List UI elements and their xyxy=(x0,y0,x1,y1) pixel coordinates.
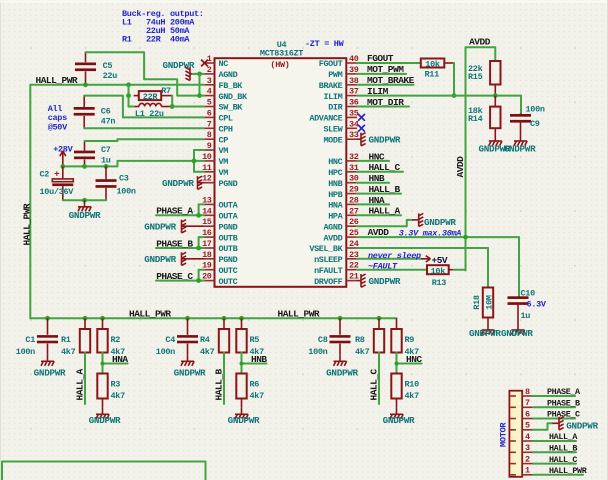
power +28V xyxy=(53,145,73,167)
wire PHASE_C bracket pins 19/20 xyxy=(156,270,204,281)
wire HALL_B from R4 xyxy=(223,353,225,405)
label HNB xyxy=(251,354,267,365)
label HALL_C xyxy=(369,162,401,173)
wire pin22 nFAULT xyxy=(357,269,427,271)
svg-text:GNDPWR: GNDPWR xyxy=(144,254,176,265)
svg-text:HALL_PWR: HALL_PWR xyxy=(549,466,588,476)
svg-text:HALL_PWR: HALL_PWR xyxy=(36,75,78,86)
label motor HALL_PWR xyxy=(549,466,588,476)
label MOT_PWM xyxy=(367,64,404,75)
IC U4 right pins 40-21 with numbers and names xyxy=(309,54,358,287)
label MOTOR vertical xyxy=(498,422,508,447)
label motor HALL_B xyxy=(549,444,577,454)
svg-text:C4: C4 xyxy=(165,335,175,345)
svg-text:4k7: 4k7 xyxy=(200,347,215,357)
svg-text:HALL_B: HALL_B xyxy=(213,368,224,400)
label MOT_DIR xyxy=(367,97,404,108)
svg-text:4k7: 4k7 xyxy=(111,391,126,401)
svg-text:AVDD: AVDD xyxy=(469,37,491,48)
power GNDPWR at motor pin 5 xyxy=(553,417,599,432)
blue note buck-reg output xyxy=(122,9,204,45)
blue note 3.3V max.30mA xyxy=(399,228,462,238)
wire motor PHASE_B xyxy=(533,406,575,408)
svg-text:ADVANCE: ADVANCE xyxy=(309,114,342,124)
connector MOTOR pin 4 xyxy=(510,432,533,442)
resistor R9 xyxy=(391,318,419,357)
svg-text:4: 4 xyxy=(525,432,530,442)
svg-text:R6: R6 xyxy=(250,379,260,389)
svg-text:GNDPWR: GNDPWR xyxy=(369,135,401,146)
svg-text:MOT_PWM: MOT_PWM xyxy=(367,64,404,75)
wire MOT_PWM pin39 xyxy=(357,73,406,75)
svg-text:3.3V max.30mA: 3.3V max.30mA xyxy=(399,228,462,238)
svg-text:SLEW: SLEW xyxy=(323,125,343,135)
svg-text:MCT8316ZT: MCT8316ZT xyxy=(260,49,303,59)
label HNB xyxy=(369,173,385,184)
svg-text:8: 8 xyxy=(525,387,530,397)
power GNDPWR at pin 26 xyxy=(412,213,456,228)
junction C5 at HALL_PWR wire xyxy=(83,82,88,87)
wire HALL_PWR horizontal to pin 3 FB_BK xyxy=(30,84,204,86)
capacitor C1 xyxy=(16,318,58,357)
junction rail at R1 xyxy=(83,316,88,321)
svg-text:5: 5 xyxy=(207,98,212,108)
svg-text:3: 3 xyxy=(207,76,212,86)
svg-text:1: 1 xyxy=(525,466,530,476)
power GNDPWR at pin 2 AGND xyxy=(163,60,205,81)
junction VM rail at C7 xyxy=(82,164,87,169)
svg-text:PHASE_A: PHASE_A xyxy=(156,206,193,217)
capacitor C3 xyxy=(96,166,136,200)
wire R7/L1 left column xyxy=(129,85,135,107)
junction VM rail at C3 xyxy=(104,164,109,169)
junction R15 bottom xyxy=(493,93,498,98)
label MOT_BRAKE xyxy=(367,75,415,86)
svg-text:OUTA: OUTA xyxy=(219,201,239,211)
svg-text:R10: R10 xyxy=(405,379,420,389)
svg-text:ILIM: ILIM xyxy=(323,92,342,102)
svg-text:GNDPWR: GNDPWR xyxy=(504,144,536,155)
wire left HALL_PWR rail vertical xyxy=(29,85,31,318)
junction PHASE_A xyxy=(196,213,201,218)
label motor PHASE_B xyxy=(547,399,580,409)
svg-text:2: 2 xyxy=(525,454,530,464)
wire HNA tap xyxy=(103,353,128,374)
resistor R11 xyxy=(421,59,454,80)
capacitor C9 xyxy=(510,105,545,135)
svg-text:GNDPWR: GNDPWR xyxy=(501,328,533,339)
svg-text:10k: 10k xyxy=(425,59,440,69)
svg-text:PGND: PGND xyxy=(219,179,238,189)
capacitor C2 (polarized) xyxy=(40,166,75,200)
svg-text:4k7: 4k7 xyxy=(61,347,76,357)
junction VM bracket xyxy=(192,159,197,164)
wire pin25 AVDD xyxy=(357,237,519,296)
power GNDPWR below C1 xyxy=(34,355,66,379)
svg-text:OUTB: OUTB xyxy=(219,244,238,254)
wire FGOUT pin40 xyxy=(357,62,421,64)
svg-text:ILIM: ILIM xyxy=(367,86,389,97)
junction ground rail xyxy=(82,198,87,203)
power GNDPWR at pin 15 PGND xyxy=(144,220,204,233)
wire C7 top to pin 8 CP xyxy=(85,139,205,141)
svg-text:HNB: HNB xyxy=(251,354,267,365)
wire HALL_B pin29 xyxy=(357,193,401,195)
label HALL_B xyxy=(369,184,401,195)
capacitor C4 xyxy=(156,318,198,357)
connector MOTOR pin 2 xyxy=(510,454,533,464)
capacitor C5 xyxy=(75,52,117,85)
svg-text:never sleep: never sleep xyxy=(368,251,421,261)
svg-text:R5: R5 xyxy=(250,335,260,345)
svg-text:9: 9 xyxy=(207,141,212,151)
capacitor C7 xyxy=(74,141,111,166)
resistor R8 xyxy=(355,318,384,357)
svg-text:PHASE_A: PHASE_A xyxy=(547,387,581,397)
svg-text:GNDPWR: GNDPWR xyxy=(566,421,598,432)
wire PHASE_B bracket pins 16/17 xyxy=(156,237,204,248)
svg-text:HNB: HNB xyxy=(328,179,342,189)
connector MOTOR pin 1 xyxy=(510,466,533,476)
svg-text:R8: R8 xyxy=(355,335,365,345)
svg-text:OUTC: OUTC xyxy=(219,277,238,287)
svg-text:HNC: HNC xyxy=(369,151,385,162)
wire motor PHASE_C xyxy=(533,418,575,420)
svg-text:AVDD: AVDD xyxy=(368,227,390,238)
svg-text:DIR: DIR xyxy=(328,103,343,113)
svg-text:GNDPWR: GNDPWR xyxy=(144,222,176,233)
wire C5 top to pin 4 GND_BK xyxy=(86,52,205,95)
svg-text:GNDPWR: GNDPWR xyxy=(174,367,206,378)
svg-text:4k7: 4k7 xyxy=(355,347,370,357)
svg-text:R18: R18 xyxy=(472,295,482,310)
svg-text:47n: 47n xyxy=(101,117,116,127)
svg-text:PGND: PGND xyxy=(219,222,238,232)
wire AGND to GND_BK vertical xyxy=(199,74,201,96)
svg-text:C7: C7 xyxy=(101,145,111,155)
blue note never sleep xyxy=(368,251,421,261)
svg-text:OUTC: OUTC xyxy=(219,266,238,276)
svg-text:AVDD: AVDD xyxy=(323,233,342,243)
svg-text:C2: C2 xyxy=(40,169,50,179)
svg-text:~FAULT: ~FAULT xyxy=(368,261,398,271)
label HALL_C vertical xyxy=(368,368,379,400)
label AVDD pin25 xyxy=(368,227,390,238)
svg-text:SW_BK: SW_BK xyxy=(219,103,244,113)
svg-text:FGOUT: FGOUT xyxy=(319,59,343,69)
svg-text:CPL: CPL xyxy=(219,114,233,124)
wire VM rail xyxy=(63,161,194,167)
svg-text:C1: C1 xyxy=(25,335,35,345)
wire C2/C3 ground rail xyxy=(63,199,106,201)
blue note all caps xyxy=(48,104,68,132)
svg-text:+: + xyxy=(54,169,60,180)
wire C6 bottom to pin 7 CPH xyxy=(84,127,204,129)
label ILIM xyxy=(367,86,389,97)
wire HNB pin30 xyxy=(357,182,389,184)
wire motor HALL_PWR xyxy=(533,474,583,476)
label motor HALL_C xyxy=(549,455,577,465)
power GNDPWR at pin 18 PGND xyxy=(144,252,204,265)
svg-text:OUTB: OUTB xyxy=(219,233,238,243)
label HALL_PWR vertical on left rail xyxy=(21,203,32,245)
capacitor C8 xyxy=(308,318,350,357)
svg-text:100n: 100n xyxy=(308,347,327,357)
svg-text:3: 3 xyxy=(525,443,530,453)
svg-text:HNC: HNC xyxy=(328,157,342,167)
svg-text:35: 35 xyxy=(349,108,359,118)
svg-text:PWM: PWM xyxy=(328,70,342,80)
capacitor C10 xyxy=(508,289,547,324)
svg-text:GNDPWR: GNDPWR xyxy=(162,178,194,189)
connector MOTOR pin 5 xyxy=(510,421,533,431)
wire AVDD rail vertical xyxy=(465,96,467,271)
svg-text:1u: 1u xyxy=(521,311,531,321)
wire R7 right to L1 right xyxy=(171,96,173,107)
svg-text:VSEL_BK: VSEL_BK xyxy=(309,244,343,254)
label motor HALL_A xyxy=(549,432,578,442)
junction HNC tap xyxy=(395,362,399,366)
svg-text:GNDPWR: GNDPWR xyxy=(424,217,456,228)
wire pin23 nSLEEP xyxy=(357,258,421,260)
junction rail at C8 xyxy=(338,316,343,321)
wire pin26 AGND to ground xyxy=(357,220,412,226)
wire SW_BK to pin 5 xyxy=(172,106,204,108)
wire HALL_C pin31 xyxy=(357,171,403,173)
svg-text:HALL_C: HALL_C xyxy=(369,162,401,173)
power GNDPWR below C2/C3 xyxy=(69,200,101,221)
svg-text:R3: R3 xyxy=(111,379,121,389)
svg-text:6: 6 xyxy=(207,108,212,118)
capacitor C6 xyxy=(74,96,116,129)
svg-text:HALL_B: HALL_B xyxy=(369,184,401,195)
svg-text:HNA: HNA xyxy=(328,201,343,211)
svg-text:MOT_BRAKE: MOT_BRAKE xyxy=(367,75,415,86)
power GNDPWR below R6 xyxy=(228,408,260,426)
connector MOTOR pin 8 xyxy=(510,387,533,397)
junction PHASE_C xyxy=(196,278,201,283)
power GNDPWR below C10 xyxy=(501,324,533,340)
svg-text:HPC: HPC xyxy=(328,168,342,178)
wire bottom HALL_PWR rail xyxy=(30,317,396,319)
label HALL_A xyxy=(369,206,401,217)
label PHASE_B xyxy=(156,238,193,249)
junction PHASE_B xyxy=(196,246,201,251)
inductor L1 xyxy=(135,103,172,119)
svg-text:HALL_B: HALL_B xyxy=(549,444,577,454)
svg-text:10M: 10M xyxy=(484,295,494,310)
label motor PHASE_C xyxy=(547,410,580,420)
svg-text:HALL_PWR: HALL_PWR xyxy=(21,203,32,245)
svg-text:GND_BK: GND_BK xyxy=(219,92,249,102)
svg-text:OUTA: OUTA xyxy=(219,212,239,222)
svg-text:GNDPWR: GNDPWR xyxy=(34,367,66,378)
svg-text:HALL_A: HALL_A xyxy=(369,206,401,217)
power GNDPWR below R10 xyxy=(383,408,415,426)
connector MOTOR pin 3 xyxy=(510,443,533,453)
op-amp U1 body (IC U4 MCT8316ZT) xyxy=(215,58,347,287)
svg-text:100n: 100n xyxy=(117,187,136,197)
wire motor HALL_B xyxy=(533,451,576,453)
junction rail at C4 xyxy=(185,316,190,321)
svg-text:GNDPWR: GNDPWR xyxy=(89,415,121,426)
svg-text:4k7: 4k7 xyxy=(405,391,420,401)
svg-text:FGOUT: FGOUT xyxy=(367,53,394,64)
power GNDPWR below R14 xyxy=(479,135,511,155)
svg-text:HNB: HNB xyxy=(369,173,385,184)
junction pin2 AGND xyxy=(197,72,202,77)
label PHASE_A xyxy=(156,206,193,217)
junction VM rail at +28V/C2 xyxy=(60,164,65,169)
svg-text:MODE: MODE xyxy=(323,135,342,145)
svg-text:C10: C10 xyxy=(521,289,536,299)
svg-text:HNC: HNC xyxy=(406,354,422,365)
svg-text:GNDPWR: GNDPWR xyxy=(228,415,260,426)
resistor R6 xyxy=(236,374,264,408)
resistor R18 xyxy=(472,288,494,324)
junction R7 left xyxy=(126,93,131,98)
wire motor HALL_C xyxy=(533,463,576,465)
resistor R14 xyxy=(468,96,501,135)
svg-text:22u: 22u xyxy=(103,71,118,81)
IC U4 value MCT8316ZT xyxy=(260,49,303,59)
svg-text:FB_BK: FB_BK xyxy=(219,81,244,91)
wire motor PHASE_A xyxy=(533,395,575,397)
junction L1 right / SW_BK xyxy=(170,104,175,109)
wire motor HALL_A xyxy=(533,440,576,442)
svg-text:R11: R11 xyxy=(425,70,440,80)
svg-text:GNDPWR: GNDPWR xyxy=(383,415,415,426)
power GNDPWR at pin 12 PGND xyxy=(162,176,204,189)
svg-text:6: 6 xyxy=(525,409,530,419)
svg-text:CPH: CPH xyxy=(219,125,233,135)
wire HNC pin32 xyxy=(357,160,389,162)
label HNC xyxy=(406,354,422,365)
label AVDD vertical xyxy=(455,156,466,178)
connector J MOTOR body xyxy=(509,391,522,477)
wire HNB tap xyxy=(242,353,267,374)
power GNDPWR below C8 xyxy=(326,355,358,379)
junction rail at R8 xyxy=(377,316,382,321)
svg-text:7: 7 xyxy=(525,398,530,408)
wire C6 top to pin 6 CPL xyxy=(84,96,204,118)
svg-text:1: 1 xyxy=(207,54,212,64)
svg-text:BRAKE: BRAKE xyxy=(319,81,343,91)
svg-text:VM: VM xyxy=(219,168,229,178)
svg-text:6.3V: 6.3V xyxy=(527,300,547,310)
svg-text:GNDPWR: GNDPWR xyxy=(326,367,358,378)
junction HNB tap xyxy=(240,362,244,366)
label motor PHASE_A xyxy=(547,387,581,397)
connector MOTOR pin 6 xyxy=(510,409,533,419)
no-connect X on pin 1 xyxy=(201,60,208,67)
svg-text:GNDPWR: GNDPWR xyxy=(369,276,401,287)
label PHASE_C xyxy=(156,271,193,282)
svg-text:C6: C6 xyxy=(101,107,111,117)
svg-text:7: 7 xyxy=(207,119,212,129)
svg-text:10u/36V: 10u/36V xyxy=(40,187,75,197)
junction R11/ILIM xyxy=(452,93,457,98)
svg-text:@50V: @50V xyxy=(48,122,68,132)
wire AVDD bracket xyxy=(466,47,496,95)
svg-text:4k7: 4k7 xyxy=(250,391,265,401)
svg-text:MOT_DIR: MOT_DIR xyxy=(367,97,404,108)
label HALL_A vertical xyxy=(74,368,85,400)
svg-text:R14: R14 xyxy=(468,114,483,124)
svg-text:R15: R15 xyxy=(468,72,483,82)
resistor R15 xyxy=(468,61,501,96)
blue note -ZT = HW xyxy=(305,39,345,49)
resistor R7 xyxy=(134,86,173,102)
junction rail at R5 xyxy=(239,316,244,321)
IC U4 left pins 1-20 with numbers and names xyxy=(202,54,248,287)
svg-text:MOTOR: MOTOR xyxy=(498,422,508,447)
svg-text:PHASE_C: PHASE_C xyxy=(547,410,580,420)
svg-text:R13: R13 xyxy=(432,278,447,288)
wire ILIM pin37 xyxy=(357,96,521,114)
svg-text:AGND: AGND xyxy=(219,70,238,80)
junction rail at C1 xyxy=(45,316,50,321)
power GNDPWR at pin 21 DRVOFF xyxy=(357,274,401,287)
junction rail at R4 xyxy=(222,316,227,321)
svg-text:PHASE_C: PHASE_C xyxy=(156,271,193,282)
wire R13 to AVDD rail xyxy=(454,269,466,271)
wire motor pin5 to ground xyxy=(533,423,552,430)
power GNDPWR below C9 xyxy=(504,135,536,155)
wire HNC tap xyxy=(397,353,422,374)
blue note -FAULT xyxy=(368,261,398,271)
svg-text:NC: NC xyxy=(219,59,229,69)
svg-text:8: 8 xyxy=(207,130,212,140)
no-connect X on pin 34 xyxy=(358,125,365,132)
svg-text:R1 22R 40mA: R1 22R 40mA xyxy=(122,35,190,45)
junction HNA tap xyxy=(101,362,105,366)
svg-text:HALL_PWR: HALL_PWR xyxy=(129,309,171,320)
svg-text:VM: VM xyxy=(219,146,229,156)
junction AVDD rail pin25 xyxy=(463,235,468,240)
svg-text:nSLEEP: nSLEEP xyxy=(314,255,343,265)
svg-text:R4: R4 xyxy=(200,335,210,345)
svg-text:AVDD: AVDD xyxy=(455,156,466,178)
power GNDPWR below R3 xyxy=(89,408,121,426)
label HALL_B vertical xyxy=(213,368,224,400)
label FGOUT xyxy=(367,53,394,64)
svg-text:10k: 10k xyxy=(431,266,446,276)
svg-text:C9: C9 xyxy=(530,119,540,129)
svg-text:HALL_PWR: HALL_PWR xyxy=(278,309,320,320)
svg-text:R2: R2 xyxy=(111,335,121,345)
svg-text:-ZT = HW: -ZT = HW xyxy=(305,39,345,49)
wire R11 to ILIM net xyxy=(453,63,455,96)
svg-text:PHASE_B: PHASE_B xyxy=(156,238,193,249)
label AVDD top xyxy=(469,37,491,48)
resistor R10 xyxy=(391,374,419,408)
wire pin24 VSEL_BK to R18 xyxy=(357,248,488,288)
power +5V xyxy=(421,255,448,266)
svg-text:nFAULT: nFAULT xyxy=(314,266,343,276)
IC U4 (HW) text xyxy=(270,60,289,70)
resistor R4 xyxy=(200,318,229,357)
svg-text:100n: 100n xyxy=(16,347,35,357)
power GNDPWR below R18 xyxy=(469,324,501,340)
junction pin4 GND_BK xyxy=(197,93,202,98)
svg-text:CP: CP xyxy=(219,135,229,145)
svg-text:HALL_C: HALL_C xyxy=(368,368,379,400)
svg-text:100n: 100n xyxy=(156,347,175,357)
no-connect X on pin 35 xyxy=(358,114,365,121)
resistor R5 xyxy=(236,318,264,357)
connector MOTOR pin 7 xyxy=(510,398,533,408)
